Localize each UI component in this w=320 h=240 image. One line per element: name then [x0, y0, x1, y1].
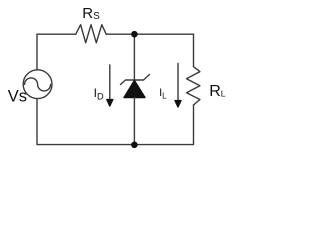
wire zener bottom lead [133, 98, 135, 145]
resistor RS [76, 25, 106, 43]
voltage source Vs [23, 70, 52, 99]
wire bottom-left segment [37, 99, 134, 145]
svg-text:Vs: Vs [8, 88, 27, 106]
current arrow IL [175, 64, 181, 108]
wire zener top lead [133, 34, 135, 80]
resistor RL [187, 67, 200, 105]
wire top-right segment [134, 33, 193, 35]
junction node top [131, 31, 138, 38]
wire top-left segment [37, 34, 76, 70]
zener diode [121, 75, 150, 98]
svg-text:RS: RS [82, 5, 100, 22]
svg-text:IL: IL [159, 87, 167, 101]
wire top-middle segment [106, 33, 134, 35]
junction node bottom [131, 142, 138, 149]
wire right lower lead [134, 105, 193, 145]
svg-text:ID: ID [94, 86, 104, 102]
wire right upper lead [193, 34, 195, 66]
current arrow ID [107, 65, 113, 106]
svg-text:RL: RL [209, 83, 226, 100]
